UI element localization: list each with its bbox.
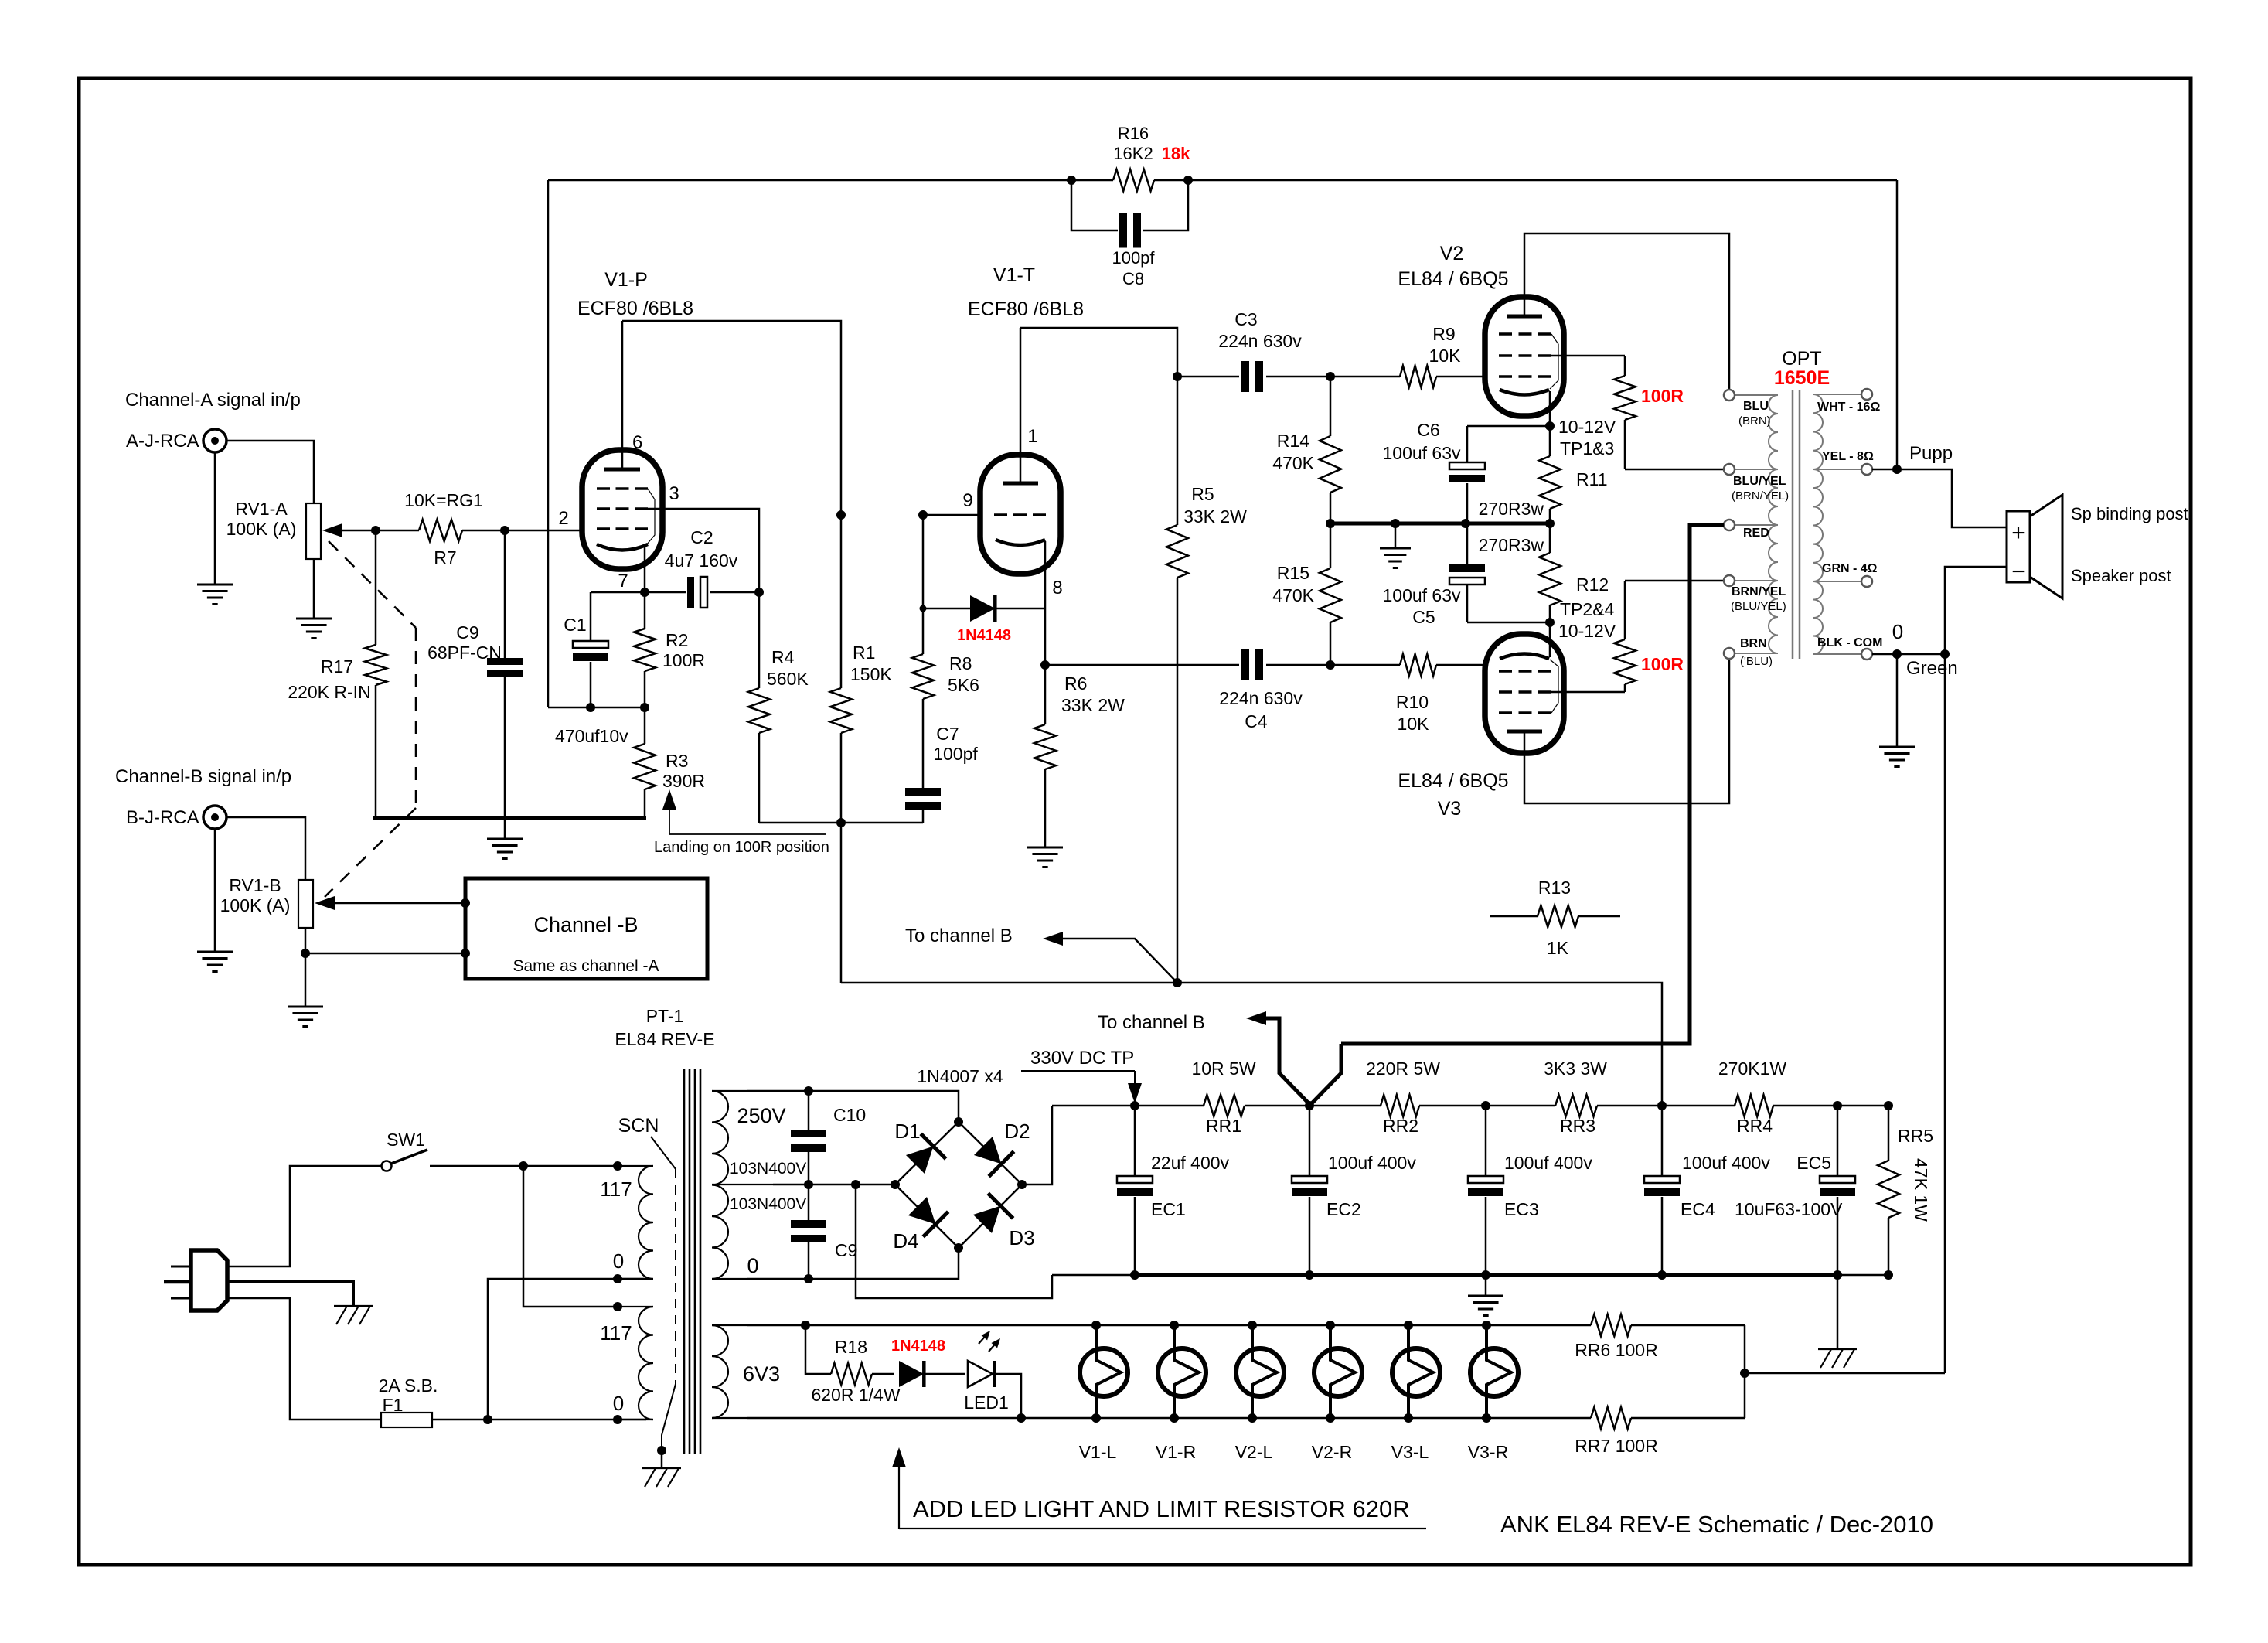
- svg-text:R5: R5: [1191, 484, 1214, 504]
- svg-text:100R: 100R: [1641, 386, 1684, 406]
- wire plug neutral to fuse: [227, 1298, 360, 1420]
- node V2 cathode: [1545, 421, 1555, 431]
- svg-text:−: −: [2011, 559, 2025, 585]
- capacitor C8: [1071, 180, 1118, 230]
- svg-text:(BRN): (BRN): [1738, 414, 1771, 428]
- V1-T cathode: [996, 540, 1045, 545]
- capacitor C6: [1467, 425, 1550, 428]
- ground RCA-A: [214, 452, 216, 585]
- wire to primary2 117: [523, 1166, 618, 1307]
- svg-text:100R: 100R: [1641, 654, 1684, 674]
- svg-text:47K 1W: 47K 1W: [1911, 1158, 1931, 1222]
- capacitor C1: [590, 592, 592, 641]
- svg-text:To channel B: To channel B: [905, 925, 1013, 946]
- svg-text:4u7 160v: 4u7 160v: [665, 551, 738, 571]
- wire cathode bus 915: [548, 707, 645, 709]
- V1-T grid row: [994, 513, 1046, 516]
- svg-text:EC3: EC3: [1504, 1199, 1539, 1219]
- svg-text:R18: R18: [835, 1337, 867, 1357]
- svg-text:C1: C1: [564, 615, 586, 635]
- wire R7 to V1-P grid pin 2: [462, 530, 582, 532]
- svg-text:D2: D2: [1004, 1120, 1030, 1143]
- svg-text:BLU: BLU: [1743, 400, 1769, 413]
- lamp V2-L: [1236, 1348, 1284, 1396]
- svg-text:R16: R16: [1118, 124, 1149, 143]
- svg-text:0: 0: [747, 1254, 758, 1277]
- node C4 right: [1326, 660, 1335, 670]
- wire plate node to C3: [1177, 376, 1239, 378]
- wire YEL to Pupp node: [1872, 469, 1897, 471]
- svg-text:V2-R: V2-R: [1312, 1442, 1352, 1462]
- PT core: [683, 1069, 686, 1454]
- svg-text:V1-T: V1-T: [993, 264, 1035, 286]
- wire heater top rail: [747, 1324, 1591, 1327]
- node RR5 top: [1884, 1101, 1893, 1110]
- svg-text:C4: C4: [1245, 711, 1268, 731]
- OPT terminal BRN: [1724, 648, 1735, 659]
- svg-text:C8: C8: [1122, 269, 1144, 288]
- lamp V2-R: [1314, 1348, 1362, 1396]
- wire V1-P pin7: [644, 546, 646, 592]
- wire thick RED B+ feed: [1341, 525, 1724, 1044]
- svg-text:100pf: 100pf: [933, 744, 978, 764]
- svg-text:10K: 10K: [1429, 346, 1462, 366]
- node RV1-B bottom: [301, 949, 310, 958]
- wire 250V 0 to bridge bottom: [747, 1248, 959, 1279]
- wire V1-T pin8: [1044, 541, 1047, 665]
- svg-text:RV1-B: RV1-B: [229, 875, 281, 895]
- V2 cathode: [1500, 390, 1549, 395]
- resistor RR1: [1204, 1095, 1245, 1116]
- svg-text:C2: C2: [690, 527, 713, 547]
- svg-text:0: 0: [1892, 620, 1903, 643]
- wire R7 input node: [376, 530, 419, 532]
- svg-text:EC5: EC5: [1796, 1153, 1831, 1173]
- secondary 250V winding: [712, 1091, 728, 1279]
- capacitor C9 68PF: [504, 530, 506, 658]
- resistor R18: [805, 1325, 831, 1374]
- wire NFB left vertical: [547, 180, 550, 707]
- svg-text:RR6 100R: RR6 100R: [1575, 1340, 1657, 1360]
- potentiometer RV1-B: [298, 880, 313, 928]
- node bias C5C6: [1461, 519, 1470, 528]
- label landing arrow: [662, 789, 676, 810]
- label ADD LED arrow: [892, 1447, 906, 1467]
- diode D3: [970, 1193, 1013, 1236]
- resistor R3: [644, 707, 646, 744]
- node Pupp: [1892, 465, 1902, 474]
- arrow to channel B upper: [1051, 939, 1177, 983]
- wire heater balance: [1744, 1325, 1746, 1418]
- tube V3 envelope: [1485, 634, 1564, 753]
- node C1 bottom: [586, 703, 595, 712]
- svg-text:150K: 150K: [850, 664, 892, 684]
- svg-text:RR2: RR2: [1383, 1116, 1418, 1136]
- resistor R16: [1113, 169, 1154, 191]
- svg-text:100pf: 100pf: [1112, 248, 1155, 268]
- svg-text:RR5: RR5: [1898, 1126, 1933, 1146]
- svg-text:620R 1/4W: 620R 1/4W: [811, 1385, 900, 1405]
- V3 cathode top: [1500, 654, 1549, 660]
- svg-text:100uf 63v: 100uf 63v: [1382, 443, 1461, 463]
- node B+ V junction: [1305, 1101, 1314, 1110]
- node EC3 top: [1481, 1101, 1490, 1110]
- svg-text:6V3: 6V3: [743, 1362, 780, 1386]
- speaker binding post: [2007, 511, 2030, 582]
- svg-text:224n 630v: 224n 630v: [1218, 331, 1302, 351]
- tube V2 envelope: [1485, 297, 1564, 416]
- OPT primary winding: [1769, 395, 1778, 469]
- svg-text:270R3w: 270R3w: [1479, 535, 1544, 555]
- svg-text:250V: 250V: [737, 1104, 785, 1127]
- capacitor C4: [1241, 649, 1249, 680]
- node primary2 117: [613, 1302, 622, 1311]
- node box lower: [461, 949, 470, 958]
- wire V1-P pin3: [648, 509, 759, 592]
- wire speaker minus: [1945, 567, 2007, 1373]
- V1-P cathode: [597, 544, 648, 551]
- wire bridge negative to bus: [856, 1185, 1052, 1298]
- wiper arrow RV1-B: [322, 902, 465, 905]
- svg-text:RR1: RR1: [1206, 1116, 1241, 1136]
- wire thick bias bus: [1330, 522, 1550, 526]
- svg-text:1N4148: 1N4148: [891, 1338, 945, 1355]
- resistor RR4: [1735, 1095, 1773, 1116]
- primary winding 2: [639, 1307, 653, 1420]
- capacitor C5: [1466, 523, 1469, 564]
- resistor R17: [375, 530, 377, 645]
- svg-text:Green: Green: [1906, 658, 1958, 679]
- svg-text:7: 7: [618, 571, 628, 591]
- wire to channel B drop: [840, 823, 843, 983]
- svg-text:6: 6: [632, 432, 642, 453]
- svg-text:ADD LED LIGHT AND LIMIT RESIST: ADD LED LIGHT AND LIMIT RESISTOR 620R: [913, 1495, 1410, 1522]
- svg-text:10K: 10K: [1398, 714, 1430, 734]
- svg-text:R7: R7: [434, 547, 456, 568]
- svg-text:R10: R10: [1396, 692, 1429, 712]
- node C9 bottom: [804, 1274, 813, 1283]
- svg-text:SW1: SW1: [387, 1130, 425, 1150]
- svg-text:To channel B: To channel B: [1098, 1012, 1205, 1033]
- wire V2 cathode pin: [1549, 391, 1551, 426]
- svg-text:R8: R8: [949, 653, 972, 673]
- svg-text:+: +: [2011, 520, 2025, 546]
- wire ground bus thick: [1135, 1273, 1837, 1277]
- svg-text:33K 2W: 33K 2W: [1183, 506, 1247, 527]
- node bias R11R12: [1545, 519, 1555, 528]
- diode D4: [905, 1194, 948, 1237]
- node pin7: [640, 588, 649, 597]
- svg-text:EL84 / 6BQ5: EL84 / 6BQ5: [1398, 770, 1508, 792]
- svg-text:R11: R11: [1576, 469, 1608, 489]
- node LED bottom: [1017, 1413, 1026, 1423]
- svg-text:PT-1: PT-1: [646, 1006, 684, 1026]
- node RR5 bottom: [1884, 1270, 1893, 1280]
- svg-text:68PF-CN: 68PF-CN: [427, 643, 502, 663]
- svg-text:V1-P: V1-P: [604, 269, 648, 291]
- resistor R4: [758, 592, 761, 688]
- svg-text:ECF80 /6BL8: ECF80 /6BL8: [968, 298, 1084, 320]
- ground RCA-B: [214, 829, 216, 952]
- svg-text:117: 117: [600, 1321, 632, 1345]
- svg-text:R15: R15: [1277, 563, 1309, 583]
- wire V1-P pin6 to V1-T grid node: [622, 321, 841, 515]
- wire NFB top rail: [548, 179, 1113, 182]
- resistor RR6: [1591, 1314, 1631, 1336]
- dashed wiper link RV1-A to RV1-B: [329, 541, 416, 628]
- node R7 left: [371, 526, 380, 535]
- wire Pupp to speaker plus: [1897, 469, 2007, 527]
- svg-text:103N400V: 103N400V: [730, 1195, 806, 1213]
- wire 310V node line: [841, 983, 1662, 1106]
- svg-text:R4: R4: [771, 647, 795, 667]
- svg-text:V1-L: V1-L: [1079, 1442, 1117, 1462]
- svg-text:117: 117: [600, 1178, 632, 1201]
- diode D2: [971, 1133, 1014, 1177]
- svg-text:100uf 400v: 100uf 400v: [1328, 1153, 1416, 1173]
- node R18 tap: [801, 1321, 810, 1330]
- svg-text:8: 8: [1052, 578, 1062, 598]
- lamp V3-R: [1470, 1348, 1518, 1396]
- V3 grid rows: [1499, 670, 1551, 673]
- lamp V1-L: [1080, 1348, 1128, 1396]
- svg-text:EC1: EC1: [1151, 1199, 1186, 1219]
- V1-T anode bar pin 1: [1003, 482, 1038, 486]
- wire RV1-B bottom: [305, 928, 307, 953]
- capacitor EC5: [1837, 1106, 1839, 1176]
- svg-text:270K1W: 270K1W: [1718, 1058, 1787, 1079]
- tube V1-P envelope: [582, 450, 662, 569]
- node fuse junction: [483, 1415, 492, 1424]
- wire V2 plate to OPT BLU: [1524, 233, 1729, 390]
- svg-text:470K: 470K: [1272, 453, 1314, 473]
- svg-text:270R3w: 270R3w: [1479, 499, 1544, 519]
- svg-text:100uf 400v: 100uf 400v: [1682, 1153, 1770, 1173]
- node EC3 bottom: [1481, 1270, 1490, 1280]
- wire pin7 node: [591, 591, 645, 594]
- tube V1-T envelope: [980, 455, 1061, 574]
- V1-P anode bar pin 6: [604, 468, 640, 472]
- svg-text:3: 3: [669, 483, 679, 504]
- ground R6: [1027, 847, 1063, 849]
- svg-text:R14: R14: [1277, 431, 1309, 451]
- svg-text:22uf 400v: 22uf 400v: [1151, 1153, 1230, 1173]
- V3 g3 cathode tie: [1550, 660, 1558, 713]
- svg-text:YEL - 8Ω: YEL - 8Ω: [1822, 450, 1874, 463]
- svg-text:C3: C3: [1234, 309, 1257, 329]
- ground RV1-B: [305, 953, 307, 1007]
- svg-text:EL84 REV-E: EL84 REV-E: [615, 1029, 714, 1049]
- ground plug chassis: [334, 1305, 373, 1307]
- svg-text:GRN - 4Ω: GRN - 4Ω: [1822, 562, 1878, 575]
- svg-text:10K=RG1: 10K=RG1: [404, 490, 483, 510]
- svg-text:SCN: SCN: [618, 1115, 659, 1137]
- svg-text:RR7 100R: RR7 100R: [1575, 1436, 1657, 1456]
- resistor R15: [1330, 523, 1332, 568]
- svg-text:390R: 390R: [662, 771, 705, 791]
- resistor 100R V2 screen: [1551, 355, 1625, 357]
- resistor R1: [840, 515, 843, 688]
- svg-text:C9: C9: [835, 1240, 857, 1260]
- svg-text:V2-L: V2-L: [1235, 1442, 1273, 1462]
- svg-text:100uf 63v: 100uf 63v: [1382, 585, 1461, 605]
- node V3 cathode: [1545, 618, 1555, 627]
- node bottom bus: [836, 818, 846, 827]
- svg-text:10-12V: 10-12V: [1558, 621, 1616, 641]
- node C3 left: [1173, 372, 1182, 381]
- svg-text:103N400V: 103N400V: [730, 1160, 806, 1178]
- capacitor C9 psu: [808, 1185, 810, 1220]
- node heater center: [1740, 1369, 1749, 1378]
- node tap branch: [851, 1180, 860, 1189]
- svg-text:EL84 / 6BQ5: EL84 / 6BQ5: [1398, 268, 1508, 290]
- svg-text:16K2: 16K2: [1113, 144, 1153, 163]
- svg-text:V1-R: V1-R: [1156, 1442, 1196, 1462]
- ground BLK COM: [1896, 654, 1899, 747]
- svg-text:R3: R3: [666, 751, 688, 771]
- resistor R2: [644, 592, 646, 629]
- svg-text:A-J-RCA: A-J-RCA: [126, 431, 199, 452]
- svg-text:RR4: RR4: [1737, 1116, 1773, 1136]
- svg-text:100K (A): 100K (A): [226, 519, 297, 539]
- node EC1: [1130, 1101, 1139, 1110]
- V1-P grid rows: [597, 487, 648, 490]
- V2 g3 cathode tie: [1550, 334, 1558, 389]
- wire RCA-A to pot: [226, 441, 314, 503]
- svg-text:EC2: EC2: [1326, 1199, 1361, 1219]
- capacitor EC1: [1134, 1106, 1136, 1176]
- capacitor C7: [922, 699, 925, 788]
- primary winding 1: [639, 1166, 653, 1279]
- wire tap to bridge left: [773, 1184, 895, 1186]
- lamp V3-L: [1392, 1348, 1440, 1396]
- resistor R14: [1330, 377, 1332, 436]
- LED LED1: [968, 1361, 993, 1387]
- node grid 9 left: [836, 510, 846, 520]
- svg-text:100K (A): 100K (A): [220, 895, 291, 915]
- node R16 right: [1183, 176, 1193, 185]
- wire heater bottom rail: [747, 1417, 1591, 1420]
- svg-text:100uf 400v: 100uf 400v: [1504, 1153, 1592, 1173]
- bridge diamond: [895, 1122, 1022, 1248]
- node SW1 branch: [519, 1161, 528, 1171]
- svg-text:RV1-A: RV1-A: [235, 499, 288, 519]
- svg-text:R13: R13: [1538, 878, 1571, 898]
- wire bridge positive to rail: [1022, 1106, 1052, 1185]
- svg-text:TP2&4: TP2&4: [1560, 599, 1615, 619]
- node grid 9 right: [918, 510, 928, 520]
- svg-text:TP1&3: TP1&3: [1560, 438, 1614, 458]
- resistor R9: [1330, 376, 1400, 378]
- svg-text:R12: R12: [1576, 574, 1609, 595]
- wire V1-T grid pin 9: [923, 514, 981, 516]
- OPT terminal GRN 4ohm: [1861, 576, 1872, 587]
- OPT terminal BLU: [1724, 390, 1735, 401]
- svg-text:Channel -B: Channel -B: [533, 913, 638, 936]
- wire plug earth: [227, 1282, 353, 1306]
- svg-text:R6: R6: [1064, 673, 1087, 694]
- resistor R7: [419, 520, 462, 541]
- node diode left: [920, 605, 927, 612]
- svg-text:BRN/YEL: BRN/YEL: [1732, 585, 1786, 598]
- wire lower coupling: [1045, 664, 1239, 666]
- node C2 right: [754, 588, 764, 597]
- capacitor EC4: [1661, 1106, 1664, 1176]
- svg-text:ECF80 /6BL8: ECF80 /6BL8: [577, 298, 693, 319]
- svg-text:WHT - 16Ω: WHT - 16Ω: [1817, 401, 1880, 414]
- svg-text:C7: C7: [936, 724, 959, 744]
- V2 anode bar: [1507, 315, 1542, 319]
- svg-text:220K R-IN: 220K R-IN: [288, 682, 370, 702]
- svg-text:D3: D3: [1009, 1226, 1034, 1249]
- svg-text:33K 2W: 33K 2W: [1061, 695, 1125, 715]
- svg-text:V3-L: V3-L: [1391, 1442, 1429, 1462]
- svg-text:BRN: BRN: [1740, 637, 1767, 650]
- svg-text:2A S.B.: 2A S.B.: [379, 1375, 438, 1396]
- svg-text:0: 0: [613, 1249, 624, 1273]
- svg-text:EC4: EC4: [1681, 1199, 1715, 1219]
- node R16 left: [1067, 176, 1076, 185]
- resistor R12: [1549, 523, 1551, 553]
- svg-text:V2: V2: [1440, 243, 1464, 264]
- OPT terminal YEL 8ohm: [1861, 464, 1872, 475]
- svg-text:R1: R1: [853, 643, 875, 663]
- V3 anode bar: [1507, 730, 1542, 734]
- wire V3 cathode pin: [1549, 622, 1551, 657]
- wire ground bus thin: [1052, 1274, 1135, 1277]
- OPT terminal RED: [1724, 520, 1735, 530]
- wire BLK COM node: [1872, 653, 1945, 656]
- resistor 100R V3 screen: [1551, 691, 1625, 694]
- resistor RR7: [1591, 1407, 1631, 1429]
- svg-text:10R 5W: 10R 5W: [1191, 1058, 1255, 1079]
- wire V3 plate to OPT BRN: [1524, 659, 1729, 803]
- svg-text:D4: D4: [893, 1229, 918, 1253]
- node EC5 bottom: [1833, 1270, 1842, 1280]
- svg-text:LED1: LED1: [964, 1392, 1009, 1413]
- svg-text:560K: 560K: [767, 669, 809, 689]
- svg-text:470uf10v: 470uf10v: [555, 726, 628, 746]
- capacitor C2: [645, 591, 686, 594]
- wire B+ rail: [1052, 1105, 1204, 1107]
- svg-text:5K6: 5K6: [948, 675, 979, 695]
- svg-text:RR3: RR3: [1560, 1116, 1595, 1136]
- node C10 top: [804, 1086, 813, 1096]
- OPT terminal BRN/YEL: [1724, 575, 1735, 586]
- svg-text:V3: V3: [1438, 798, 1462, 820]
- channel B box: [465, 878, 707, 979]
- node bridge top: [954, 1117, 963, 1127]
- svg-text:1: 1: [1027, 426, 1037, 447]
- node primary1 0: [613, 1274, 622, 1283]
- node EC2 bottom: [1305, 1270, 1314, 1280]
- svg-text:(BRN/YEL): (BRN/YEL): [1732, 489, 1789, 503]
- OPT secondary winding: [1813, 394, 1823, 469]
- V2 grid rows: [1499, 332, 1551, 336]
- node SCN ground: [657, 1446, 666, 1455]
- node bias R14: [1326, 519, 1335, 528]
- svg-text:C9: C9: [456, 622, 478, 643]
- V1-P g3 cathode tie: [646, 489, 655, 545]
- svg-text:Landing on 100R position: Landing on 100R position: [654, 839, 829, 856]
- wire fuse to primary1 0: [488, 1279, 646, 1420]
- diode D1: [903, 1133, 946, 1177]
- svg-text:Sp binding post: Sp binding post: [2071, 504, 2188, 523]
- svg-text:R17: R17: [321, 656, 353, 677]
- node box wiper: [461, 898, 470, 908]
- svg-text:BLU/YEL: BLU/YEL: [1733, 475, 1786, 488]
- wire thick channel-A ground bus: [373, 816, 646, 820]
